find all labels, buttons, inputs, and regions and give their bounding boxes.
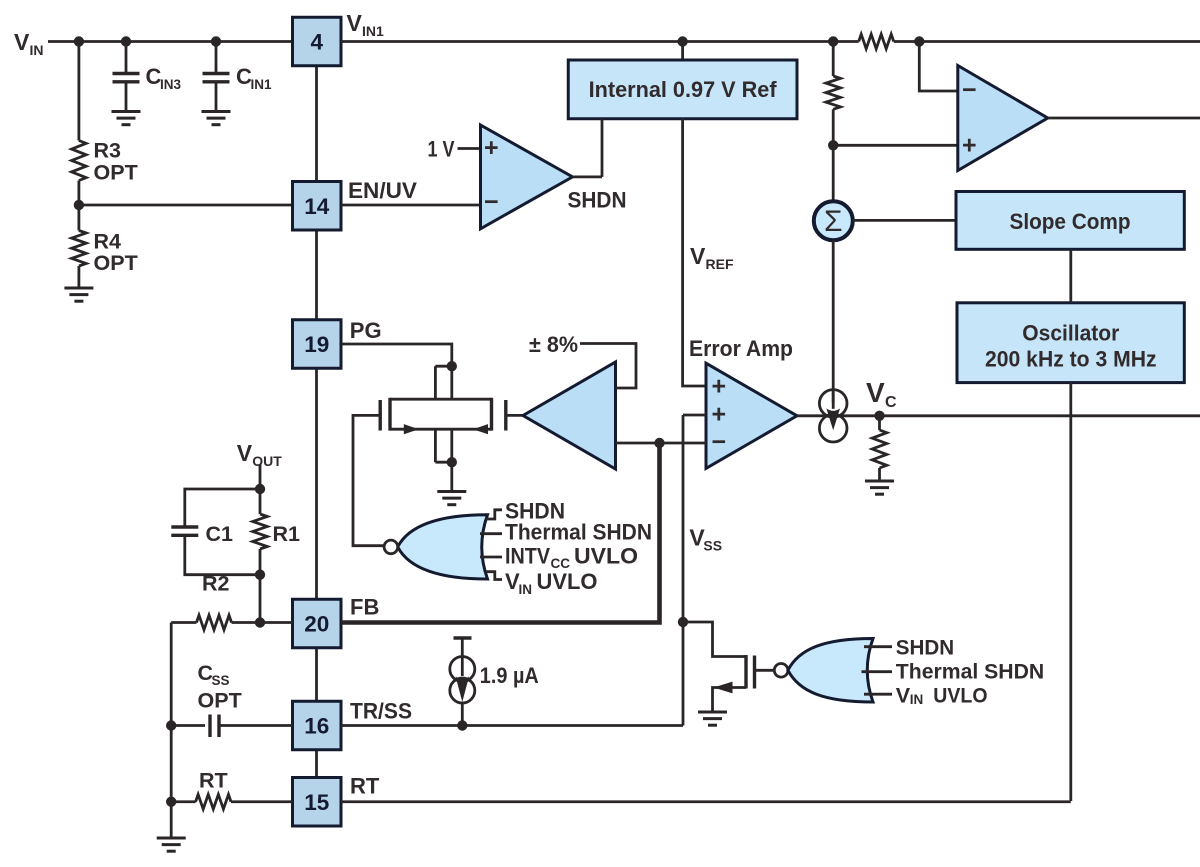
svg-text:IN: IN [30,42,44,58]
svg-text:C: C [885,394,897,411]
svg-text:IN1: IN1 [362,23,384,39]
svg-text:SS: SS [212,673,230,688]
svg-text:OUT: OUT [252,453,282,469]
svg-text:V: V [237,440,253,466]
svg-text:UVLO: UVLO [537,569,598,594]
svg-text:C1: C1 [206,522,234,546]
svg-text:INTV: INTV [505,544,550,569]
svg-text:Thermal SHDN: Thermal SHDN [505,520,652,545]
svg-text:+: + [962,132,977,160]
svg-text:−: − [962,76,977,104]
svg-text:IN1: IN1 [251,77,273,92]
svg-text:19: 19 [304,332,329,357]
svg-text:1.9 µA: 1.9 µA [480,663,539,688]
svg-text:IN3: IN3 [160,77,182,92]
svg-text:−: − [484,188,499,216]
svg-text:± 8%: ± 8% [529,332,578,357]
svg-text:+: + [484,134,499,162]
svg-text:15: 15 [304,790,329,815]
svg-text:SHDN: SHDN [896,635,954,659]
svg-text:UVLO: UVLO [574,544,638,569]
svg-text:4: 4 [310,30,323,55]
svg-text:V: V [14,29,30,55]
svg-text:RT: RT [350,774,380,799]
svg-text:OPT: OPT [198,689,242,713]
svg-text:20: 20 [304,612,329,637]
svg-text:RT: RT [199,769,228,793]
svg-text:+: + [712,373,727,401]
svg-text:IN: IN [910,692,924,707]
svg-text:EN/UV: EN/UV [348,178,417,203]
svg-text:Slope Comp: Slope Comp [1010,209,1131,234]
svg-text:TR/SS: TR/SS [350,699,412,724]
svg-text:+: + [712,401,727,429]
svg-text:OPT: OPT [94,161,138,185]
svg-text:V: V [866,377,885,408]
svg-text:Thermal SHDN: Thermal SHDN [896,659,1044,683]
svg-text:SS: SS [703,538,722,554]
svg-text:Σ: Σ [824,205,843,238]
svg-text:OPT: OPT [94,251,138,275]
svg-text:−: − [712,428,727,456]
svg-text:UVLO: UVLO [933,684,987,708]
svg-text:Oscillator: Oscillator [1022,321,1119,346]
svg-text:1 V: 1 V [428,137,455,162]
svg-text:V: V [896,684,911,708]
svg-text:FB: FB [350,595,379,620]
svg-text:Internal 0.97 V Ref: Internal 0.97 V Ref [589,77,778,102]
svg-text:16: 16 [304,714,329,739]
svg-text:Error Amp: Error Amp [689,336,793,361]
svg-text:SHDN: SHDN [568,188,627,213]
svg-text:14: 14 [304,194,330,219]
svg-text:IN: IN [519,582,533,597]
svg-text:R4: R4 [94,230,122,254]
svg-text:V: V [690,243,706,269]
svg-text:V: V [347,10,363,36]
svg-text:R2: R2 [202,572,230,596]
svg-text:PG: PG [350,318,382,343]
svg-text:R1: R1 [273,522,301,546]
svg-text:REF: REF [706,256,734,272]
svg-text:200 kHz to 3 MHz: 200 kHz to 3 MHz [985,347,1157,372]
svg-text:R3: R3 [94,139,122,163]
